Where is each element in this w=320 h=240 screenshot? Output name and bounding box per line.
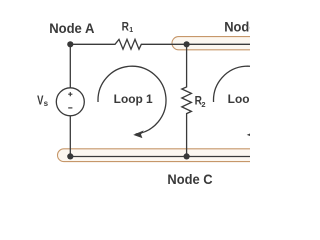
svg-text:Loop 2: Loop 2 [228,93,250,106]
svg-text:Node C: Node C [167,171,212,187]
wire: left branch upper segment [69,44,71,88]
minus sign inside source [68,107,72,109]
wire: bottom [70,156,252,158]
voltage source VS circle [56,88,84,116]
svg-text:1: 1 [129,27,133,34]
loop 2 direction arc [214,66,282,134]
node C right junction dot [184,153,190,159]
svg-text:s: s [44,99,49,108]
plus sign inside source [68,92,72,96]
wire: left branch lower segment [69,116,71,157]
wire: right branch with resistor R2 zigzag [182,44,192,156]
svg-text:Node B: Node B [224,19,250,35]
loop 1 direction arc [98,66,166,134]
node A junction dot [67,41,73,47]
svg-text:R: R [122,19,130,33]
svg-text:2: 2 [201,100,205,109]
svg-text:Loop 1: Loop 1 [114,93,154,106]
loop 2 arrowhead [247,130,258,138]
highlight box around node C [58,149,267,162]
highlight box around node B [172,37,267,50]
loop 1 arrowhead [133,130,144,138]
node B junction dot [184,41,190,47]
wire: top with resistor R1 zigzag [70,39,252,49]
node C left junction dot [67,153,73,159]
svg-text:Node A: Node A [49,20,94,36]
